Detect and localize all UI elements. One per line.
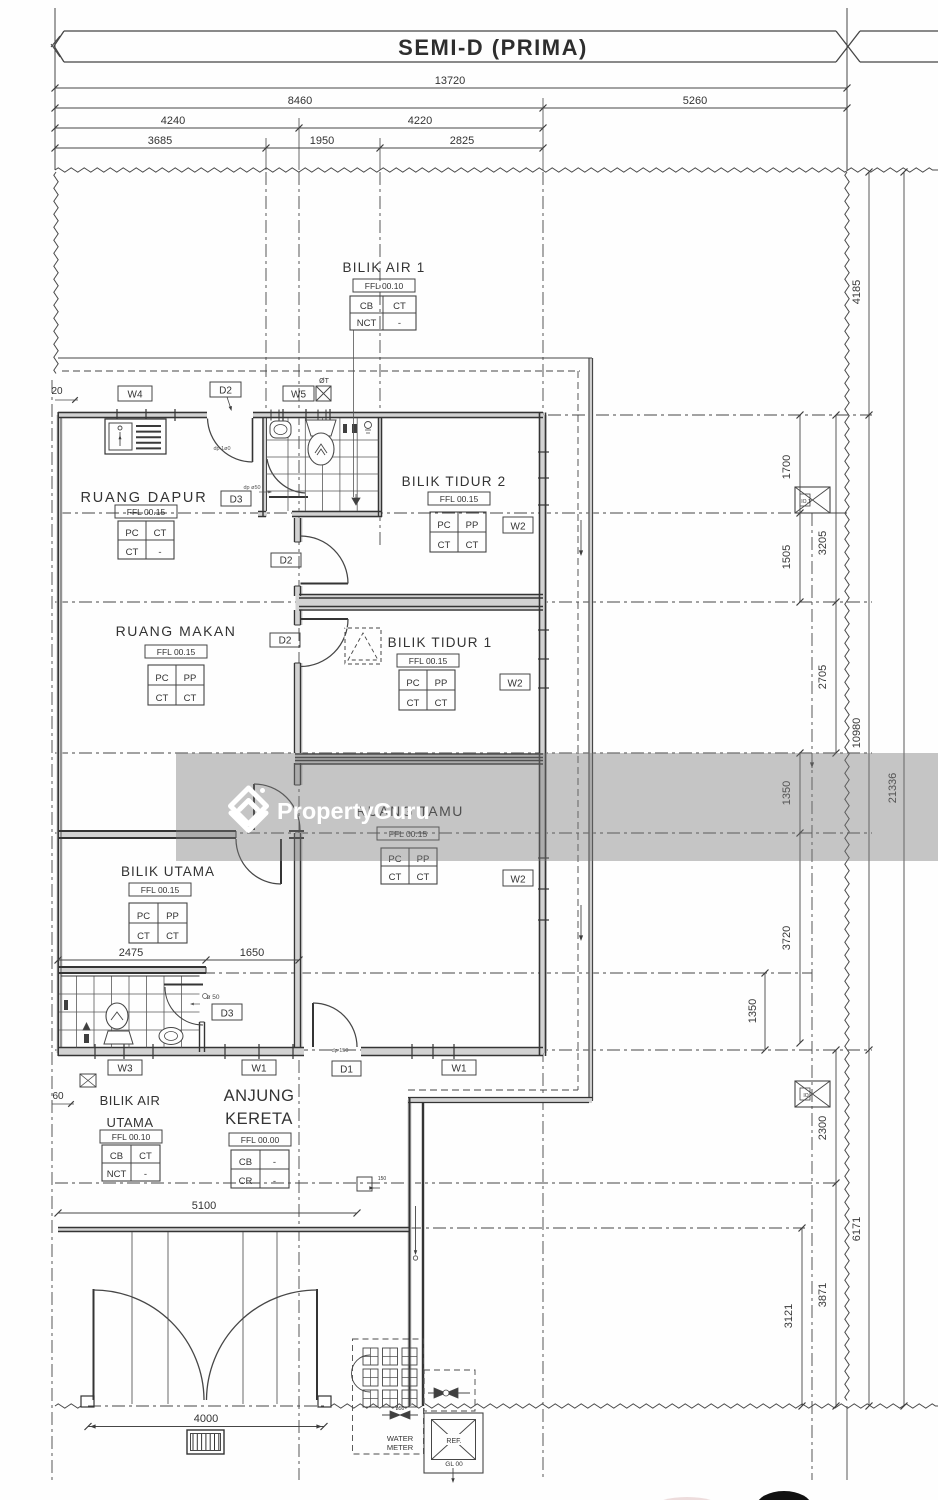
dimension chain x=765 (1350) <box>764 973 766 1050</box>
svg-text:FFL 00.15: FFL 00.15 <box>141 885 180 895</box>
svg-text:FFL 00.10: FFL 00.10 <box>365 281 404 291</box>
svg-text:dp ø50: dp ø50 <box>243 485 260 491</box>
neighbour porch wall horizontal <box>408 1097 593 1099</box>
svg-text:PP: PP <box>184 673 197 684</box>
svg-text:8460: 8460 <box>288 95 312 107</box>
window W1b ticks on bottom wall <box>411 1044 413 1059</box>
grid line vertical x=812 <box>811 513 813 1480</box>
meter box symbol bottom-left <box>80 1074 96 1087</box>
door label D1 <box>332 1061 361 1076</box>
svg-text:W3: W3 <box>118 1064 133 1075</box>
window W5 ticks on top wall <box>282 409 284 421</box>
valve symbol 2 <box>428 1392 470 1394</box>
svg-text:FFL 00.15: FFL 00.15 <box>440 494 479 504</box>
svg-text:1950: 1950 <box>310 135 334 147</box>
bath1 vent ticks on top wall <box>270 410 272 421</box>
bath2 tap and trap <box>64 1000 68 1010</box>
svg-text:13720: 13720 <box>435 75 466 87</box>
svg-text:IO: IO <box>803 1093 808 1099</box>
water meter curve detail <box>352 1355 371 1392</box>
leader line from BILIK AIR 1 schedule to shower <box>353 330 355 497</box>
svg-text:4185: 4185 <box>851 280 863 304</box>
svg-text:2825: 2825 <box>450 135 474 147</box>
bath2 wash basin <box>159 1028 183 1045</box>
window label W1 left <box>242 1060 276 1075</box>
dimension chain x=836 (3205/2705/2300/3871) <box>835 415 837 753</box>
svg-text:dp 150: dp 150 <box>332 1048 349 1054</box>
svg-text:FFL 00.15: FFL 00.15 <box>409 656 448 666</box>
grid line vertical x=299 <box>298 172 300 1480</box>
window W2 ticks on right wall <box>538 451 549 453</box>
roof eave right solid vertical pair <box>588 358 590 1098</box>
svg-text:6171: 6171 <box>851 1217 863 1241</box>
door label D3 bath1 <box>221 491 251 506</box>
svg-text:2475: 2475 <box>119 947 143 959</box>
svg-text:CT: CT <box>417 872 430 883</box>
svg-text:CT: CT <box>156 693 169 704</box>
neighbour party wall vertical going down <box>409 1098 411 1407</box>
svg-text:CB: CB <box>239 1157 252 1168</box>
door to BILIK UTAMA leaf and arc <box>280 839 282 884</box>
kitchen sink unit <box>105 419 166 454</box>
roof eave right dashed vertical <box>577 371 579 1090</box>
svg-text:CT: CT <box>184 693 197 704</box>
bath1 floor tile grid <box>267 418 379 511</box>
water meter grate grid <box>363 1348 378 1365</box>
svg-text:D3: D3 <box>230 495 243 506</box>
gully trap box on grid y=1183 <box>357 1177 372 1191</box>
bath1 floor trap <box>352 498 360 505</box>
svg-text:3685: 3685 <box>148 135 172 147</box>
grid line horizontal y=1183 <box>55 1182 838 1184</box>
window W1a ticks on bottom wall <box>224 1044 226 1059</box>
grid line horizontal y=831 <box>55 832 872 834</box>
PropertyGuru logo mark <box>231 788 267 831</box>
dimension 2475 / 1650 <box>58 959 299 961</box>
svg-text:1350: 1350 <box>747 999 759 1023</box>
svg-text:1505: 1505 <box>781 545 793 569</box>
bath1 wall left <box>262 418 264 517</box>
dimension 4000 gate <box>88 1426 324 1428</box>
svg-text:2300: 2300 <box>817 1116 829 1140</box>
roof eave line top dashed <box>62 370 580 372</box>
svg-text:CT: CT <box>407 698 420 709</box>
hall opening door leaf and arc <box>253 784 255 830</box>
svg-text:3205: 3205 <box>817 531 829 555</box>
dimension chain x=904 (21336) <box>903 172 905 1406</box>
REF marker box <box>424 1413 483 1473</box>
door D2 top (kitchen entry) leaf and arc <box>252 418 254 462</box>
valve dashed enclosure 2 <box>424 1370 475 1411</box>
svg-text:W2: W2 <box>511 875 526 886</box>
svg-text:W1: W1 <box>252 1064 267 1075</box>
exterior wall right <box>539 413 541 1057</box>
svg-text:FFL 00.10: FFL 00.10 <box>112 1132 151 1142</box>
door label D2 top <box>210 382 241 397</box>
svg-text:KERETA: KERETA <box>225 1110 293 1128</box>
svg-text:W2: W2 <box>508 679 523 690</box>
wall between BILIK TIDUR 1 and RUANG TAMU <box>295 753 543 755</box>
door label D2 bedroom2 <box>271 553 301 567</box>
water meter valve symbol <box>382 1414 418 1416</box>
grid line vertical x=52 <box>51 380 53 1480</box>
door D3 bath1 leaf and arc <box>269 496 308 498</box>
grid line right vertical x=847 top stub <box>846 8 848 170</box>
gate swing arc left <box>94 1290 205 1400</box>
dimension 8460 / 5260 <box>55 107 847 109</box>
svg-text:5100: 5100 <box>192 1200 216 1212</box>
wardrobe dashed box <box>345 628 381 664</box>
dimension 4240 / 4220 <box>55 127 543 129</box>
svg-text:1700: 1700 <box>781 455 793 479</box>
downpipe arrow at neighbour wall <box>415 1206 417 1251</box>
bath1 taps <box>343 424 347 433</box>
window label W2 bedroom2 <box>503 517 533 533</box>
svg-text:PC: PC <box>155 673 168 684</box>
svg-text:D2: D2 <box>219 386 232 397</box>
window symbol IO2 on boundary wall <box>795 1081 830 1107</box>
svg-text:W1: W1 <box>452 1064 467 1075</box>
svg-text:-: - <box>273 1176 276 1187</box>
grid line horizontal y=513 <box>58 512 795 514</box>
gate leaf left <box>93 1289 95 1400</box>
svg-text:CT: CT <box>139 1151 152 1162</box>
svg-text:4240: 4240 <box>161 115 185 127</box>
svg-text:D1: D1 <box>340 1065 353 1076</box>
bath1 wall bottom <box>258 511 266 513</box>
svg-text:-: - <box>398 318 401 329</box>
bottom logo circle <box>756 1491 812 1500</box>
svg-text:ØT: ØT <box>319 378 329 385</box>
svg-text:CR: CR <box>239 1176 253 1187</box>
wall between RUANG MAKAN and BILIK UTAMA <box>58 830 236 832</box>
svg-text:METER: METER <box>387 1443 414 1452</box>
grid line horizontal y=1050 <box>55 1049 872 1051</box>
svg-text:GL 00: GL 00 <box>445 1461 463 1468</box>
gate post left <box>81 1396 94 1407</box>
svg-text:PC: PC <box>437 520 450 531</box>
bath2 shower door D3 leaf and arc <box>164 984 203 986</box>
svg-text:20: 20 <box>51 386 63 397</box>
svg-text:W2: W2 <box>511 522 526 533</box>
svg-text:NCT: NCT <box>107 1169 127 1180</box>
svg-text:-: - <box>273 1157 276 1168</box>
svg-text:3121: 3121 <box>783 1304 795 1328</box>
svg-text:CT: CT <box>166 931 179 942</box>
svg-text:ø50: ø50 <box>396 1406 405 1412</box>
svg-text:RUANG DAPUR: RUANG DAPUR <box>81 490 208 506</box>
water meter dashed enclosure <box>353 1339 424 1454</box>
window label W1 right <box>442 1060 476 1075</box>
dimension chain x=800 (1700/1505/1350/3720/3121) <box>799 415 801 602</box>
svg-text:ø 50: ø 50 <box>206 994 219 1001</box>
grid line horizontal y=973 <box>58 972 812 974</box>
svg-text:CB: CB <box>110 1151 123 1162</box>
svg-text:RUANG MAKAN: RUANG MAKAN <box>116 623 237 639</box>
door D2 to BILIK TIDUR 2 leaf and arc <box>301 583 349 585</box>
svg-text:CT: CT <box>154 528 167 539</box>
svg-text:FFL 00.00: FFL 00.00 <box>241 1135 280 1145</box>
grid line vertical x=543 <box>542 172 544 415</box>
svg-text:FFL 00.15: FFL 00.15 <box>157 647 196 657</box>
lot boundary zigzag top <box>55 168 938 172</box>
svg-text:4000: 4000 <box>194 1413 218 1425</box>
bath1 wall right <box>378 418 380 517</box>
grid line horizontal y=415 <box>548 414 872 416</box>
door label D2 bedroom1 <box>270 633 300 647</box>
svg-text:BILIK TIDUR 1: BILIK TIDUR 1 <box>388 635 493 650</box>
grid line left vertical x=55 top stub <box>54 8 56 170</box>
bath2 floor tile grid <box>59 976 200 1048</box>
svg-text:5260: 5260 <box>683 95 707 107</box>
gate leaf right <box>316 1289 318 1400</box>
svg-text:CT: CT <box>389 872 402 883</box>
svg-text:PC: PC <box>125 528 138 539</box>
roof drain arrow lower <box>580 905 582 937</box>
svg-text:WATER: WATER <box>387 1434 414 1443</box>
svg-text:IO.1: IO.1 <box>801 499 811 505</box>
gate post right <box>318 1396 331 1407</box>
symbol box OT near W5 <box>316 386 331 401</box>
svg-text:REF.: REF. <box>446 1438 461 1445</box>
svg-text:ANJUNG: ANJUNG <box>224 1087 295 1105</box>
bath1 toilet <box>306 420 336 436</box>
corridor wall x=297 segments <box>294 518 296 542</box>
lot boundary zigzag right x=847 <box>845 172 849 1401</box>
svg-text:CT: CT <box>466 540 479 551</box>
arrow marker on grid x=812 <box>810 762 814 768</box>
window W4 ticks on top wall <box>116 409 118 421</box>
svg-text:NCT: NCT <box>357 318 377 329</box>
lot boundary zigzag left <box>54 172 58 374</box>
PropertyGuru watermark band <box>176 753 938 861</box>
svg-text:PC: PC <box>406 678 419 689</box>
svg-text:FFL 00.15: FFL 00.15 <box>127 507 166 517</box>
svg-text:-: - <box>144 1169 147 1180</box>
svg-text:CT: CT <box>435 698 448 709</box>
svg-text:CB: CB <box>360 301 373 312</box>
svg-text:PP: PP <box>466 520 479 531</box>
title banner SEMI-D (PRIMA) <box>64 30 836 32</box>
svg-text:3871: 3871 <box>817 1283 829 1307</box>
svg-text:BILIK AIR: BILIK AIR <box>100 1093 161 1108</box>
gate hatch marker <box>187 1430 224 1454</box>
door label D3 master bath <box>212 1004 242 1020</box>
grid line horizontal y=598 (through plan) <box>55 601 872 603</box>
bottom agent photo ellipse <box>654 1497 720 1500</box>
window label W4 <box>118 386 152 401</box>
dimension 13720 <box>55 87 847 89</box>
exterior wall bottom <box>58 1047 304 1049</box>
door D2 to BILIK TIDUR 1 leaf and arc <box>301 618 349 620</box>
exterior wall left <box>57 412 59 1056</box>
svg-text:BILIK TIDUR 2: BILIK TIDUR 2 <box>402 474 507 489</box>
svg-text:BILIK AIR 1: BILIK AIR 1 <box>343 260 426 275</box>
roof drain arrow upper <box>580 520 582 552</box>
bath1 wash basin <box>270 421 291 438</box>
window label W3 <box>108 1060 142 1075</box>
dimension 5100 <box>58 1212 357 1214</box>
lot boundary zigzag bottom <box>55 1404 81 1408</box>
grid line horizontal y=753 <box>55 752 872 754</box>
gate swing arc right <box>207 1290 318 1400</box>
svg-text:PC: PC <box>137 911 150 922</box>
dimension chain x=869 (4185/10980/6171) <box>868 172 870 1406</box>
svg-text:D2: D2 <box>279 636 292 647</box>
svg-text:UTAMA: UTAMA <box>106 1115 153 1130</box>
svg-text:CT: CT <box>126 547 139 558</box>
svg-text:3720: 3720 <box>781 926 793 950</box>
exterior wall top <box>58 412 207 414</box>
fence wall front <box>58 1227 409 1229</box>
window label W5 <box>283 386 314 401</box>
svg-text:dp 1ø0: dp 1ø0 <box>213 446 230 452</box>
svg-text:D2: D2 <box>280 556 293 567</box>
svg-text:PropertyGuru: PropertyGuru <box>277 798 430 824</box>
grid line vertical x=266 <box>265 172 267 416</box>
svg-text:PP: PP <box>166 911 179 922</box>
svg-text:BILIK UTAMA: BILIK UTAMA <box>121 864 215 879</box>
svg-text:CT: CT <box>137 931 150 942</box>
lot boundary dash-dot across gate <box>88 1405 324 1407</box>
svg-text:CT: CT <box>393 301 406 312</box>
bath2 wall right lower <box>199 1022 201 1052</box>
svg-text:D3: D3 <box>221 1009 234 1020</box>
roof eave line top solid <box>58 357 592 359</box>
svg-text:W4: W4 <box>128 390 143 401</box>
svg-text:CT: CT <box>438 540 451 551</box>
window symbol IO1 on boundary wall <box>795 487 830 513</box>
grid line vertical x=380 <box>379 172 381 545</box>
svg-text:1650: 1650 <box>240 947 264 959</box>
svg-text:10980: 10980 <box>851 718 863 749</box>
driveway edge lines <box>131 1232 133 1404</box>
svg-text:60: 60 <box>52 1091 64 1102</box>
svg-text:2705: 2705 <box>817 665 829 689</box>
wall blur understrokes <box>58 412 207 419</box>
bath1 shower symbol <box>365 422 372 429</box>
svg-text:SEMI-D (PRIMA): SEMI-D (PRIMA) <box>398 35 588 60</box>
svg-text:W5: W5 <box>291 390 306 401</box>
neighbour porch top dashed <box>408 1089 578 1091</box>
dimension extension lines <box>265 138 267 170</box>
dimension 3685 / 1950 / 2825 <box>55 147 543 149</box>
grid line horizontal y=1227 dash-dot right part <box>409 1227 805 1229</box>
bath2 toilet <box>104 1031 133 1044</box>
window label W2 bedroom1 <box>500 674 530 690</box>
svg-text:PP: PP <box>435 678 448 689</box>
window W3 ticks on bottom wall <box>94 1044 96 1059</box>
svg-text:-: - <box>158 547 161 558</box>
front door D1 leaf and arc <box>312 1003 314 1047</box>
wall between BILIK TIDUR 2 and 1 <box>299 594 543 596</box>
window label W2 ruang tamu <box>503 870 533 886</box>
svg-text:4220: 4220 <box>408 115 432 127</box>
wall between BILIK UTAMA and BILIK AIR UTAMA <box>58 966 206 968</box>
svg-text:150: 150 <box>378 1176 387 1182</box>
